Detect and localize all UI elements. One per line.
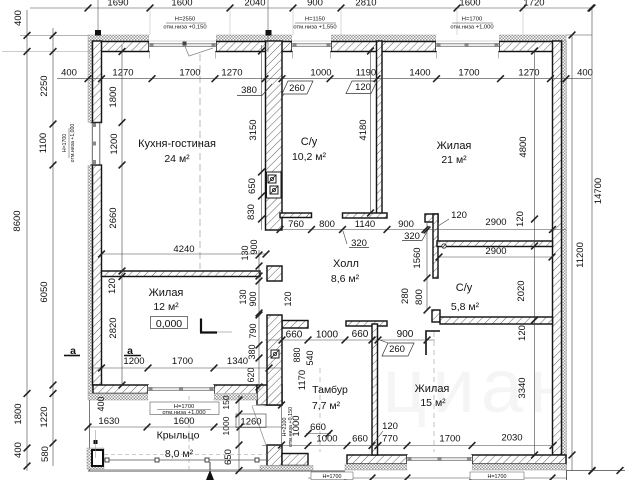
svg-text:660: 660 — [352, 434, 368, 445]
svg-text:8,6 м²: 8,6 м² — [331, 273, 360, 285]
porch window spec box — [150, 402, 219, 415]
svg-text:С/у: С/у — [456, 282, 473, 294]
su58 south wall — [440, 317, 553, 324]
svg-text:4180: 4180 — [358, 119, 369, 140]
svg-text:2820: 2820 — [108, 317, 119, 338]
tambour west wall column — [267, 315, 282, 405]
svg-text:150: 150 — [221, 395, 231, 409]
svg-text:3150: 3150 — [248, 119, 259, 140]
svg-text:2900: 2900 — [485, 217, 506, 228]
svg-text:660: 660 — [286, 330, 303, 341]
svg-text:260: 260 — [389, 344, 405, 355]
svg-text:21 м²: 21 м² — [441, 154, 467, 166]
svg-text:2030: 2030 — [501, 433, 522, 444]
svg-text:1270: 1270 — [518, 68, 539, 79]
svg-text:4800: 4800 — [518, 136, 529, 157]
dim 1560/280/800 — [426, 222, 428, 310]
bath south wall (760) — [280, 213, 312, 218]
window W6 porch wall (1600) — [148, 385, 214, 399]
hall/zh12 pier block — [267, 266, 282, 281]
svg-text:2660: 2660 — [108, 207, 119, 228]
symbol on divider wall — [442, 244, 446, 248]
svg-text:отм.низа +0,150: отм.низа +0,150 — [163, 25, 206, 31]
kitchen/bath wall (380) — [266, 41, 283, 230]
svg-text:5,8 м²: 5,8 м² — [451, 301, 480, 313]
svg-text:1200: 1200 — [123, 356, 144, 367]
svg-text:400: 400 — [13, 442, 24, 458]
entrance door leaf — [252, 406, 266, 445]
svg-text:8,0 м²: 8,0 м² — [165, 448, 194, 460]
elevation mark 0.000 — [151, 317, 188, 329]
svg-text:380: 380 — [241, 85, 257, 96]
zh12 door dim chain — [258, 250, 260, 390]
bottom wall segment (tambour left) — [267, 445, 282, 466]
outer top cladding strip seg3 — [331, 35, 436, 41]
svg-text:1190: 1190 — [356, 68, 376, 79]
svg-text:1600: 1600 — [459, 0, 480, 9]
svg-text:540: 540 — [305, 350, 315, 365]
svg-text:1220: 1220 — [39, 406, 50, 427]
porch dashed overhang line — [104, 454, 267, 456]
svg-text:H=1700: H=1700 — [487, 474, 506, 480]
svg-text:6050: 6050 — [39, 281, 50, 302]
right chains — [566, 34, 592, 36]
svg-text:0,000: 0,000 — [156, 318, 182, 330]
outer left cladding strip lower — [88, 165, 93, 394]
svg-text:1270: 1270 — [221, 68, 242, 79]
svg-text:Жилая: Жилая — [437, 140, 472, 152]
svg-text:280: 280 — [400, 288, 411, 304]
svg-text:1600: 1600 — [173, 416, 194, 427]
svg-text:1340: 1340 — [227, 356, 248, 367]
dashed axis zh15 — [433, 332, 435, 452]
svg-text:Тамбур: Тамбур — [312, 384, 348, 396]
left outer chain — [26, 10, 28, 471]
svg-text:830: 830 — [246, 204, 257, 220]
bath/bedroom21 wall (vertical thin) — [377, 41, 383, 215]
dashed axis tambour — [319, 368, 321, 452]
svg-text:10,2 м²: 10,2 м² — [292, 151, 327, 163]
top wall segment D (corner-right) — [499, 42, 562, 52]
dim 2900 lower — [439, 256, 552, 258]
su58 west wall upper — [433, 214, 438, 278]
bedroom21/su58 divider wall — [437, 241, 553, 247]
svg-text:400: 400 — [13, 10, 24, 26]
svg-text:2900: 2900 — [485, 246, 506, 257]
svg-text:660: 660 — [352, 329, 369, 340]
bottom cladding strip left — [345, 464, 407, 470]
left inner chain — [52, 28, 54, 466]
bottom wall segment (tambour right of door) — [282, 454, 308, 466]
top wall segment B — [216, 42, 292, 52]
top wall segment C — [331, 42, 436, 52]
dim 4240 — [102, 253, 268, 255]
svg-text:1200: 1200 — [109, 133, 120, 154]
svg-text:580: 580 — [40, 446, 51, 462]
svg-text:Кухня-гостиная: Кухня-гостиная — [138, 138, 216, 150]
svg-text:770: 770 — [382, 434, 398, 445]
tambour east wall — [372, 324, 378, 455]
bottom dim row — [262, 445, 553, 447]
svg-text:900: 900 — [249, 239, 259, 254]
svg-text:120: 120 — [107, 278, 118, 294]
window W3 top (1600) — [436, 35, 499, 51]
svg-text:120: 120 — [355, 82, 371, 93]
svg-text:Жилая: Жилая — [149, 287, 184, 299]
tambour door dim — [281, 405, 283, 445]
svg-text:С/у: С/у — [301, 136, 318, 148]
kitchen south wall — [102, 271, 261, 277]
dim 4180 — [370, 51, 372, 213]
top wall segment A (corner-left) — [93, 42, 150, 52]
bottom cladding strip right — [472, 464, 567, 470]
porch axis dashed — [188, 396, 190, 470]
svg-text:11200: 11200 — [575, 242, 586, 268]
svg-text:1100: 1100 — [38, 133, 49, 153]
right interior dim column — [534, 51, 536, 455]
mid dim row (760/800/1140/900/2900) — [280, 229, 566, 231]
svg-text:Жилая: Жилая — [415, 383, 450, 395]
svg-text:120: 120 — [451, 210, 467, 221]
svg-text:1140: 1140 — [355, 219, 375, 230]
porch-side wall segment left — [93, 385, 148, 394]
svg-text:14700: 14700 — [593, 178, 604, 204]
kitchen zone dashed divider — [199, 54, 201, 269]
porch wall cladding right — [214, 394, 257, 401]
window W1 casement symbol — [184, 44, 213, 56]
svg-text:880: 880 — [292, 347, 302, 362]
svg-text:H=1700: H=1700 — [62, 134, 68, 152]
svg-text:отм.низа +0,150: отм.низа +0,150 — [288, 407, 294, 447]
svg-text:1800: 1800 — [13, 403, 24, 424]
kitchen interior dim column — [121, 45, 123, 385]
porch dim row — [88, 426, 282, 428]
top dim row 2 — [57, 78, 591, 80]
svg-text:отм.низа +1,000: отм.низа +1,000 — [162, 410, 205, 416]
svg-text:900: 900 — [248, 291, 258, 306]
right wall — [553, 41, 562, 455]
outer top cladding strip seg2 — [216, 35, 292, 41]
svg-text:790: 790 — [248, 323, 258, 338]
porch outline — [89, 400, 91, 471]
svg-text:1720: 1720 — [523, 0, 544, 9]
bottom window specs — [311, 472, 353, 480]
svg-text:260: 260 — [289, 83, 305, 94]
svg-text:7,7 м²: 7,7 м² — [312, 400, 341, 412]
svg-text:400: 400 — [577, 68, 593, 79]
pier flange at bedroom21 door — [425, 214, 438, 222]
svg-text:1600: 1600 — [171, 0, 192, 9]
porch column pad — [87, 448, 104, 469]
window W4 left wall (1100) — [87, 123, 102, 166]
corner mark hall — [426, 331, 440, 355]
window W1 top (1600) — [149, 35, 216, 51]
svg-text:400: 400 — [96, 396, 106, 411]
svg-text:900: 900 — [398, 219, 414, 230]
svg-text:2810: 2810 — [355, 0, 376, 9]
svg-text:800: 800 — [414, 289, 425, 305]
svg-text:120: 120 — [283, 291, 293, 306]
window W5 bottom (Zhilaya 15) — [407, 455, 472, 469]
outer left cladding strip upper — [88, 41, 93, 123]
svg-text:380: 380 — [247, 344, 257, 359]
svg-text:отм.низа +1,550: отм.низа +1,550 — [293, 25, 336, 31]
bottom cladding tambour — [260, 466, 313, 472]
bottom chain — [308, 477, 566, 479]
svg-text:120: 120 — [382, 421, 398, 432]
svg-text:2020: 2020 — [516, 280, 527, 301]
svg-text:400: 400 — [61, 68, 77, 79]
svg-text:620: 620 — [246, 367, 256, 382]
svg-text:H=1150: H=1150 — [305, 17, 325, 23]
wall face extension lines top-left — [20, 34, 88, 36]
top dim row 1 — [30, 7, 592, 9]
svg-text:отм.низа +1,000: отм.низа +1,000 — [70, 124, 76, 163]
outer top cladding strip seg4 — [499, 35, 566, 41]
outer right cladding strip — [562, 41, 567, 470]
svg-text:900: 900 — [307, 0, 323, 9]
svg-text:отм.низа +1,000: отм.низа +1,000 — [450, 25, 493, 31]
axis marker mid — [267, 0, 269, 52]
svg-text:4240: 4240 — [173, 244, 194, 255]
svg-text:760: 760 — [288, 219, 304, 230]
svg-text:1400: 1400 — [409, 68, 430, 79]
svg-text:660: 660 — [310, 422, 326, 433]
su58 west wall stub lower — [432, 310, 440, 322]
column axis dot — [94, 440, 98, 444]
svg-text:1700: 1700 — [172, 356, 193, 367]
svg-text:2040: 2040 — [244, 0, 265, 9]
svg-text:1260: 1260 — [240, 417, 261, 428]
bottom wall segment (below Zhilaya15 left) — [347, 455, 407, 464]
outer top cladding strip seg1 — [88, 35, 149, 41]
porch-side wall segment right — [214, 385, 257, 395]
svg-text:120: 120 — [517, 325, 528, 341]
vent in tambour wall — [271, 350, 279, 358]
svg-text:800: 800 — [319, 219, 335, 230]
dim 3150/650/830 — [261, 45, 263, 230]
porch top dim row — [88, 367, 282, 369]
svg-text:1560: 1560 — [412, 247, 423, 268]
svg-text:1630: 1630 — [98, 416, 119, 427]
bottom wall segment (below Zhilaya15 right + corner) — [472, 455, 566, 464]
dim 650 porch — [238, 395, 240, 471]
svg-text:1700: 1700 — [179, 68, 200, 79]
svg-text:H=1700: H=1700 — [322, 474, 341, 480]
hall south dim row — [265, 339, 435, 341]
hall south wall left (660) — [282, 321, 308, 329]
svg-text:2250: 2250 — [39, 75, 50, 96]
svg-text:120: 120 — [515, 211, 526, 227]
bedroom21 wall footing — [343, 213, 388, 218]
svg-text:Холл: Холл — [333, 258, 359, 270]
svg-text:3340: 3340 — [517, 377, 528, 398]
svg-text:650: 650 — [247, 178, 258, 194]
svg-text:1700: 1700 — [439, 434, 460, 445]
svg-text:1690: 1690 — [107, 0, 128, 9]
hall south wall mid — [346, 321, 387, 326]
svg-text:H=2550: H=2550 — [175, 17, 195, 23]
svg-text:650: 650 — [223, 449, 234, 465]
axis marker left — [97, 0, 99, 35]
svg-text:1700: 1700 — [458, 68, 479, 79]
svg-text:130: 130 — [238, 289, 248, 304]
svg-text:1800: 1800 — [108, 86, 119, 107]
svg-text:циан: циан — [383, 344, 577, 429]
svg-text:1270: 1270 — [112, 68, 133, 79]
porch wall cladding left — [88, 394, 148, 401]
svg-text:Крыльцо: Крыльцо — [157, 430, 200, 442]
svg-text:8600: 8600 — [12, 210, 23, 231]
svg-text:1000: 1000 — [316, 330, 339, 341]
svg-text:15 м²: 15 м² — [420, 397, 446, 409]
entrance arrow — [206, 470, 214, 480]
ventilation block in kitchen wall — [267, 172, 282, 198]
svg-text:900: 900 — [397, 329, 414, 340]
porch-side wall corner block — [257, 385, 282, 405]
row1 extension lines — [522, 9, 524, 35]
window W2 top (900) — [292, 35, 331, 51]
svg-text:12 м²: 12 м² — [153, 301, 179, 313]
svg-text:1000: 1000 — [310, 68, 331, 79]
svg-text:H=1700: H=1700 — [462, 17, 482, 23]
svg-text:1000: 1000 — [316, 434, 337, 445]
svg-text:1000: 1000 — [221, 416, 231, 435]
svg-text:24 м²: 24 м² — [164, 153, 190, 165]
porch railing — [104, 459, 267, 461]
left wall lower segment — [93, 165, 102, 385]
left wall upper segment — [93, 41, 102, 123]
svg-text:1170: 1170 — [297, 370, 308, 390]
